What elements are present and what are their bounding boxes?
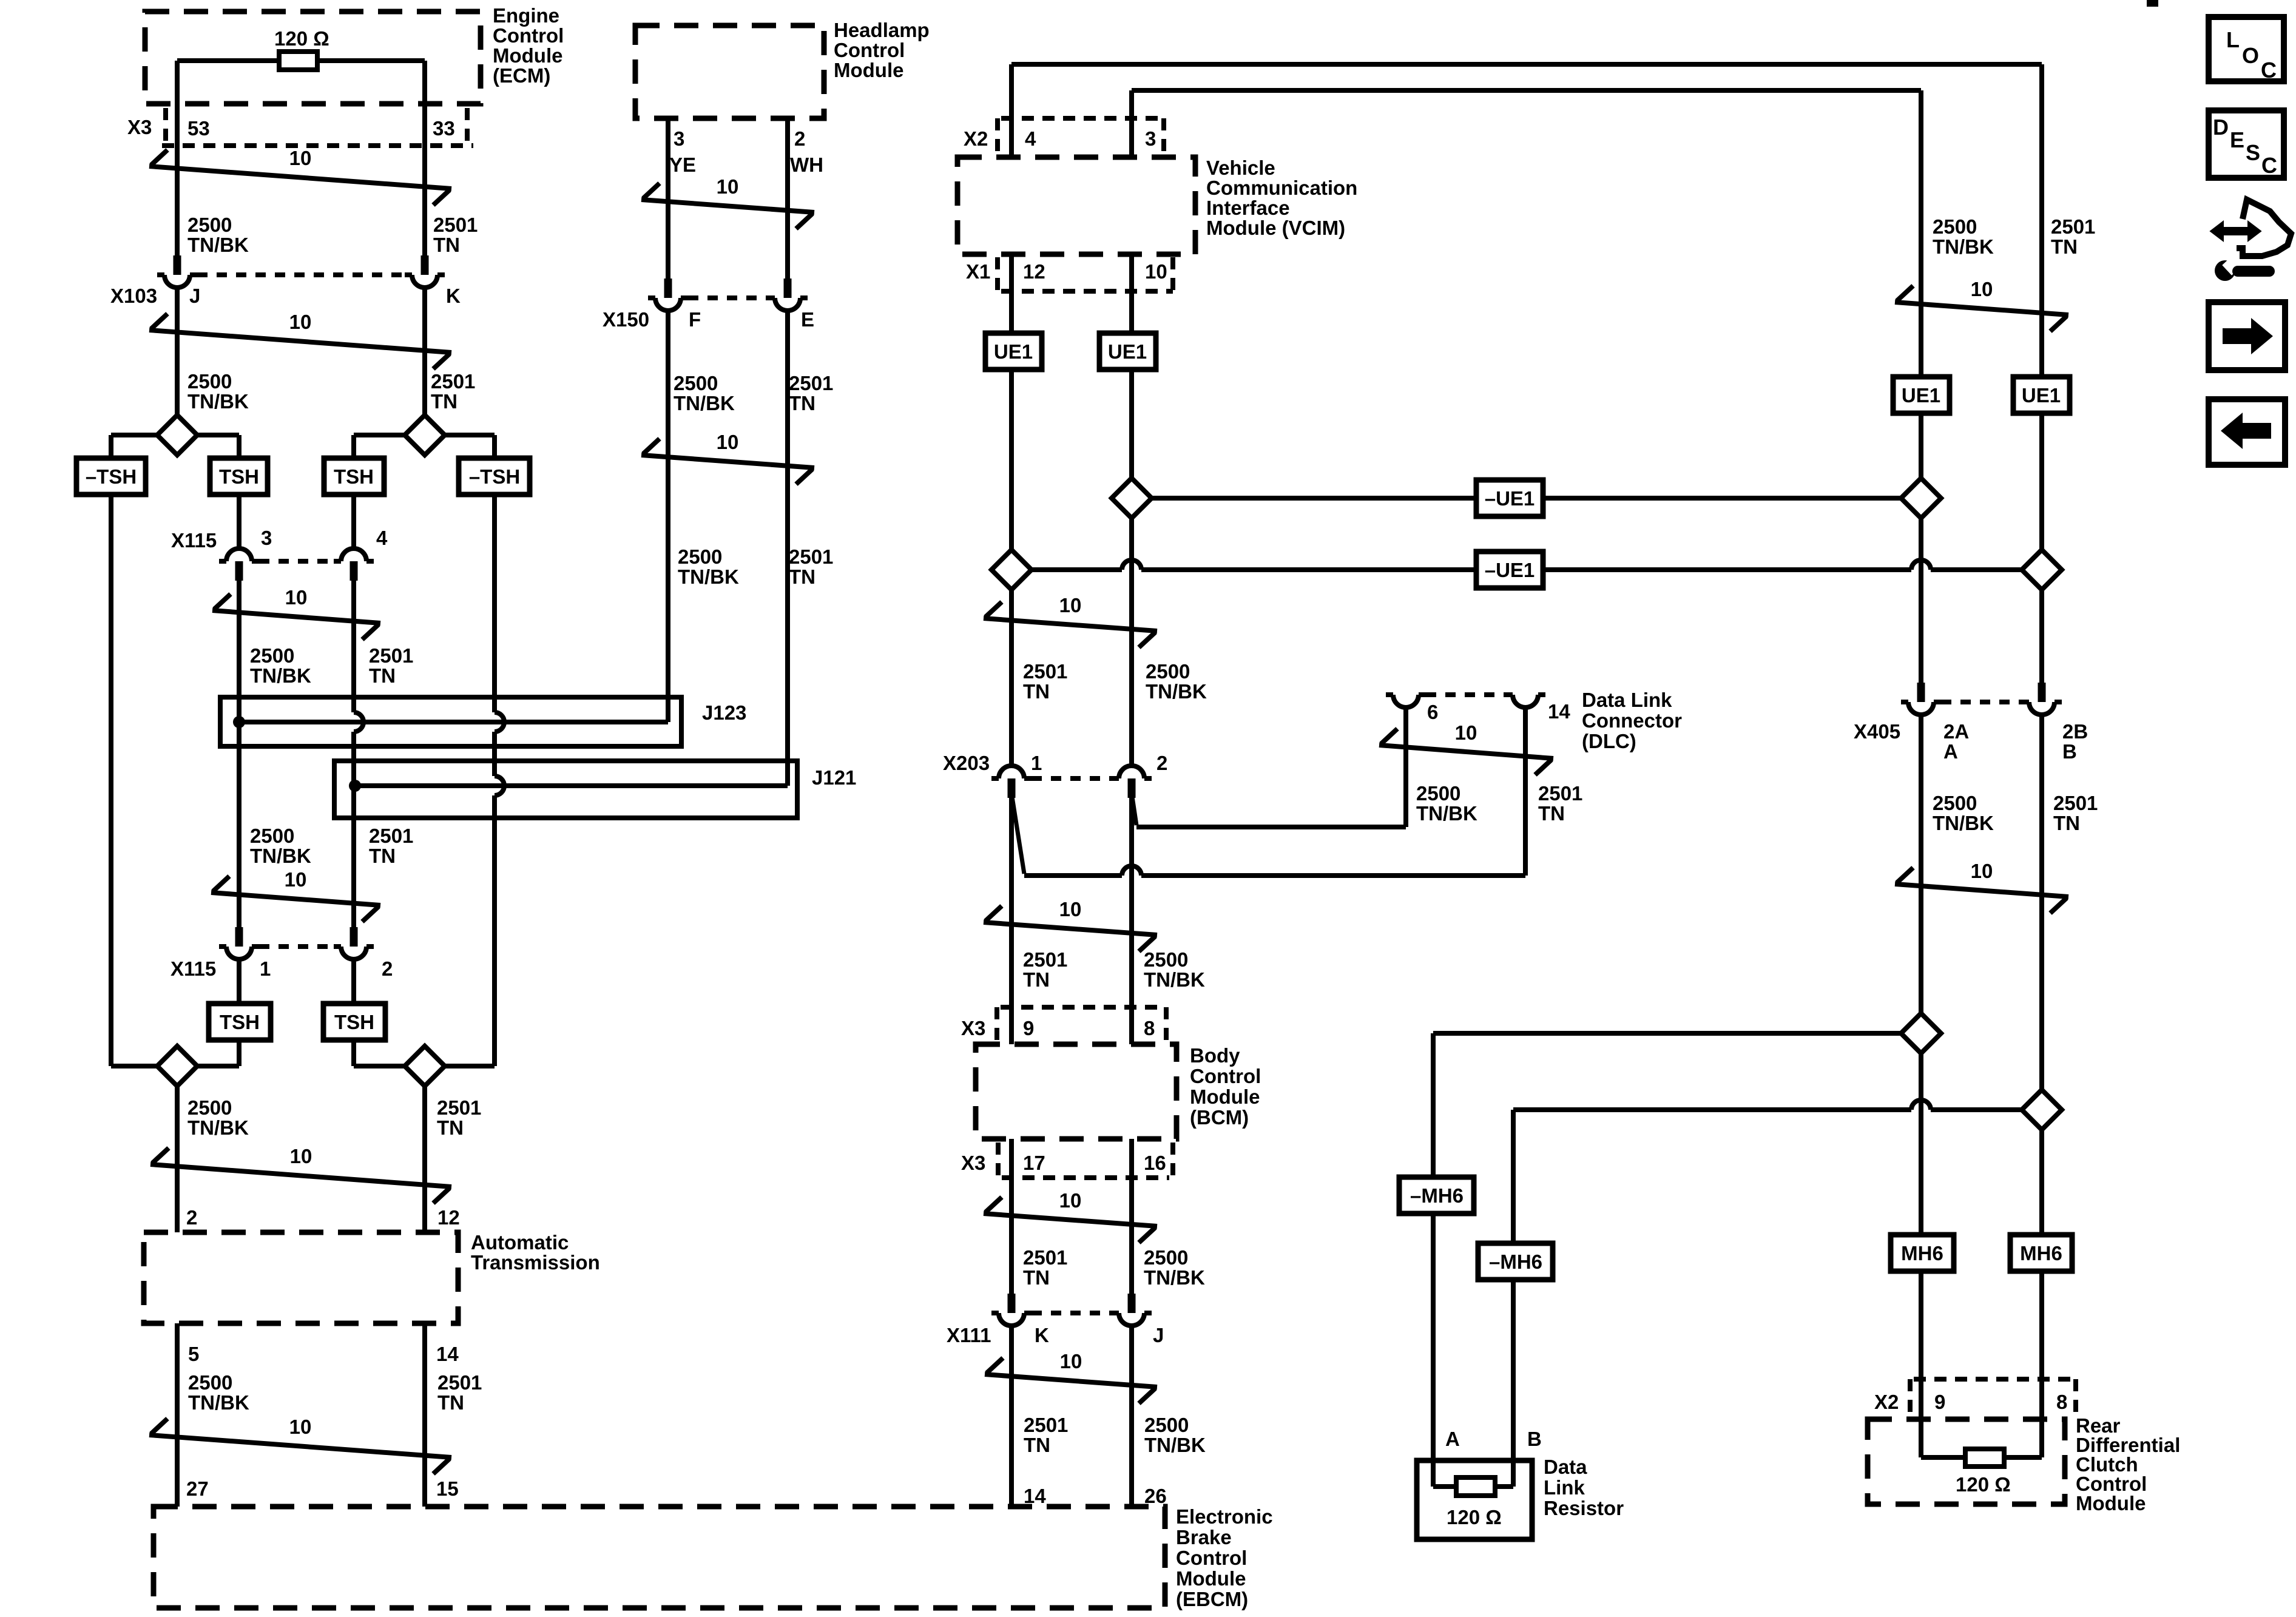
- svg-text:X405: X405: [1854, 720, 1900, 743]
- pin 12: [1023, 260, 1045, 283]
- svg-text:TSH: TSH: [219, 465, 259, 488]
- wire ECM internal left to resistor: [177, 58, 280, 63]
- label Vehicle Communication Interface Module (VCIM): [1206, 157, 1357, 239]
- svg-text:Communication: Communication: [1206, 177, 1357, 199]
- value label 120 ohm: [1956, 1473, 2011, 1496]
- svg-text:Vehicle: Vehicle: [1206, 157, 1275, 179]
- svg-text:6: 6: [1427, 701, 1438, 723]
- svg-text:10: 10: [1059, 898, 1082, 920]
- pin 9: [1023, 1017, 1034, 1039]
- svg-text:3: 3: [1145, 127, 1156, 150]
- svg-text:120 Ω: 120 Ω: [1956, 1473, 2011, 1496]
- svg-text:2500: 2500: [187, 370, 232, 393]
- svg-text:X203: X203: [943, 752, 990, 774]
- svg-text:Automatic: Automatic: [471, 1231, 569, 1254]
- pin 2: [1156, 752, 1167, 774]
- wire 2501 down to TSH: [351, 959, 356, 1004]
- net label UE1: [985, 333, 1042, 370]
- svg-text:2500: 2500: [1416, 782, 1460, 805]
- wire right 2500 MH6 to X2: [1919, 1271, 1923, 1457]
- svg-text:10: 10: [290, 1145, 312, 1167]
- pin 6: [1427, 701, 1438, 723]
- wire B branch to resistor box: [1511, 1280, 1516, 1487]
- svg-text:2500: 2500: [187, 1096, 232, 1119]
- svg-text:Headlamp: Headlamp: [834, 19, 930, 41]
- svg-text:TN/BK: TN/BK: [1933, 812, 1994, 834]
- wire label 2501 TN: [2051, 215, 2095, 258]
- splice diamond on right 2500 at -UE1 bus: [1901, 478, 1941, 518]
- svg-text:2500: 2500: [1144, 1414, 1189, 1436]
- connector label X115: [171, 529, 217, 552]
- connector X103 pin K: [405, 255, 445, 288]
- wire 2501 to transmission: [422, 1086, 427, 1232]
- svg-text:14: 14: [1024, 1485, 1046, 1507]
- wire ECM internal resistor to right: [318, 58, 425, 63]
- svg-text:X2: X2: [964, 127, 988, 150]
- wire label 2500 TN/BK: [250, 644, 311, 687]
- svg-text:1: 1: [1031, 752, 1042, 774]
- wire 2500 X203 to BCM: [1129, 798, 1134, 1044]
- label Rear Differential Clutch Control Module: [2076, 1414, 2180, 1514]
- twisted pair crossing 10 below headlamp: [641, 175, 814, 229]
- wire label 2501 TN: [437, 1096, 481, 1139]
- net label -MH6: [1478, 1243, 1553, 1280]
- connector DLC pin 14: [1505, 695, 1545, 707]
- svg-text:2501: 2501: [433, 214, 478, 236]
- svg-text:Resistor: Resistor: [1544, 1497, 1624, 1519]
- svg-text:–TSH: –TSH: [469, 465, 520, 488]
- svg-text:X3: X3: [127, 116, 152, 138]
- svg-text:Electronic: Electronic: [1176, 1505, 1273, 1528]
- wire label 2500 TN/BK: [1933, 215, 1994, 258]
- wire 2501 down crossing J123: [354, 581, 363, 927]
- svg-text:2500: 2500: [674, 372, 718, 394]
- wire TSH chain down: [237, 495, 241, 549]
- wire label WH: [790, 154, 823, 176]
- wire X1 pin 12 down: [1009, 254, 1014, 333]
- junction label J123: [702, 701, 746, 724]
- pin J: [189, 285, 200, 307]
- module box Body Control Module (BCM): [976, 1044, 1177, 1139]
- svg-text:TN: TN: [1023, 968, 1050, 991]
- wire 2500 from ECM pin 53: [175, 61, 180, 255]
- value label 120 ohm: [1447, 1506, 1502, 1528]
- svg-text:2501: 2501: [437, 1096, 481, 1119]
- splice diamond on 2501 at -UE1 bus: [991, 550, 1032, 590]
- icon box LOC: [2209, 17, 2284, 83]
- wire 2501 from ECM pin 33: [422, 61, 427, 255]
- connector label X115: [171, 957, 216, 980]
- svg-text:Module: Module: [2076, 1492, 2146, 1514]
- svg-text:10: 10: [289, 311, 312, 333]
- svg-text:TN: TN: [1023, 680, 1050, 703]
- connector X115 dashed pair line: [259, 559, 334, 564]
- module box Engine Control Module (ECM): [145, 12, 481, 104]
- svg-text:D: D: [2213, 115, 2229, 140]
- pin 12: [437, 1206, 460, 1229]
- icon box arrow left: [2209, 399, 2285, 465]
- wire label 2501 TN: [789, 545, 833, 588]
- wire 2501 below UE1: [1009, 370, 1014, 550]
- svg-text:K: K: [1035, 1324, 1049, 1346]
- connector X103 pin J: [157, 255, 197, 288]
- label Headlamp Control Module: [834, 19, 930, 81]
- wire -TSH chain down left: [109, 495, 113, 1066]
- svg-text:120 Ω: 120 Ω: [274, 27, 329, 50]
- svg-text:TN/BK: TN/BK: [187, 390, 249, 413]
- pin 2: [382, 957, 393, 980]
- svg-text:2500: 2500: [1933, 792, 1977, 814]
- twisted pair crossing 10 above EBCM: [149, 1416, 451, 1474]
- pin 3: [261, 527, 272, 549]
- svg-text:WH: WH: [790, 154, 823, 176]
- wire TSH chain down right: [351, 495, 356, 549]
- svg-text:Control: Control: [1176, 1547, 1247, 1569]
- pin 27: [186, 1477, 209, 1500]
- svg-text:UE1: UE1: [1902, 384, 1940, 407]
- bus wire -UE1 upper: [1152, 496, 1476, 501]
- wire inside J123 to headlamp: [239, 720, 668, 724]
- wire 2500 down through J123 junction: [237, 581, 241, 927]
- pin K: [1035, 1324, 1049, 1346]
- wire X203 pin2 to DLC pin6: [1136, 825, 1406, 829]
- svg-text:B: B: [1527, 1428, 1542, 1450]
- label Engine Control Module (ECM): [493, 4, 564, 87]
- twisted pair crossing 10 below X103: [149, 311, 451, 369]
- connector X115 pin 1: [219, 927, 259, 959]
- svg-text:J: J: [1153, 1324, 1164, 1346]
- pin F: [689, 308, 701, 331]
- svg-text:TN: TN: [431, 390, 458, 413]
- svg-text:10: 10: [285, 586, 308, 609]
- connector X103 dashed pair line: [197, 272, 405, 277]
- svg-text:12: 12: [1023, 260, 1045, 283]
- svg-text:TN: TN: [369, 845, 396, 867]
- svg-text:Body: Body: [1190, 1044, 1240, 1067]
- splice diamond right 2500 to resistor A: [1901, 1013, 1941, 1053]
- wire right 2500 X405 to diamond: [1919, 715, 1923, 1013]
- connector label X3: [961, 1152, 985, 1174]
- wire label 2500 TN/BK: [1933, 792, 1994, 834]
- svg-text:L: L: [2226, 27, 2240, 52]
- svg-text:8: 8: [1144, 1017, 1155, 1039]
- pin 15: [436, 1477, 459, 1500]
- svg-text:Module: Module: [1190, 1085, 1260, 1108]
- svg-text:TN: TN: [1023, 1266, 1050, 1289]
- svg-text:Control: Control: [834, 39, 905, 61]
- wire label 2501 TN: [1024, 1414, 1068, 1456]
- connector label X3: [961, 1017, 985, 1039]
- twisted pair crossing 10 below ECM: [149, 147, 451, 205]
- svg-text:2501: 2501: [1023, 660, 1067, 683]
- wire jog X203 pin2 to DLC bus: [1132, 797, 1136, 825]
- splice diamond merge 2500: [157, 1046, 197, 1086]
- icon box arrow right: [2209, 302, 2285, 370]
- svg-text:10: 10: [717, 431, 739, 453]
- svg-text:X150: X150: [603, 308, 649, 331]
- twisted pair crossing 10 right top: [1895, 278, 2068, 331]
- svg-text:TN: TN: [1024, 1434, 1050, 1456]
- svg-text:TN: TN: [789, 392, 815, 414]
- svg-text:3: 3: [674, 127, 684, 150]
- svg-text:TN/BK: TN/BK: [1146, 680, 1207, 703]
- wire 2500 between diamond and X203: [1129, 518, 1134, 766]
- svg-text:10: 10: [289, 147, 312, 169]
- svg-text:–UE1: –UE1: [1485, 559, 1535, 581]
- svg-text:Connector: Connector: [1582, 709, 1682, 732]
- svg-text:Module: Module: [493, 44, 562, 67]
- wire label 2501 TN: [1023, 948, 1067, 991]
- net label MH6: [1891, 1235, 1954, 1271]
- wire right 2500 diamond to MH6: [1919, 1053, 1923, 1235]
- pin 33: [433, 117, 455, 140]
- svg-text:2500: 2500: [1933, 215, 1977, 238]
- svg-text:27: 27: [186, 1477, 209, 1500]
- connector strip X3 of BCM top: [997, 1007, 1166, 1041]
- connector label X103: [110, 285, 157, 307]
- svg-text:O: O: [2242, 43, 2259, 68]
- svg-text:10: 10: [1971, 278, 1993, 300]
- bus wire pin4 to right column: [1011, 62, 2042, 67]
- svg-text:26: 26: [1144, 1485, 1167, 1507]
- svg-text:2500: 2500: [1146, 660, 1190, 683]
- svg-text:4: 4: [376, 527, 388, 549]
- svg-text:TSH: TSH: [334, 465, 374, 488]
- wire label 2500 TN/BK: [1416, 782, 1477, 825]
- svg-text:X115: X115: [171, 529, 217, 552]
- wire 2501 BCM to X111: [1009, 1139, 1014, 1294]
- svg-text:Brake: Brake: [1176, 1526, 1232, 1548]
- svg-text:UE1: UE1: [1108, 340, 1147, 363]
- wire B branch down: [1511, 1110, 1516, 1243]
- connector X111 dashed pair line: [1032, 1311, 1112, 1315]
- svg-text:TN: TN: [433, 234, 460, 256]
- svg-text:MH6: MH6: [2020, 1242, 2062, 1264]
- svg-text:X3: X3: [961, 1152, 985, 1174]
- svg-text:–MH6: –MH6: [1410, 1184, 1464, 1207]
- twisted pair crossing 10 below BCM: [984, 1189, 1157, 1243]
- svg-text:Data: Data: [1544, 1456, 1587, 1478]
- net label TSH: [324, 458, 384, 495]
- module box Electronic Brake Control Module (EBCM): [154, 1507, 1165, 1608]
- icon box DESC: [2209, 110, 2284, 178]
- wire right 2501 X405 to diamond: [2039, 715, 2044, 1090]
- svg-text:Interface: Interface: [1206, 197, 1290, 219]
- pin 3: [674, 127, 684, 150]
- wire right 2500 diamond to X405: [1919, 518, 1923, 683]
- wire label 2500 TN/BK: [187, 1096, 249, 1139]
- connector label X2: [964, 127, 988, 150]
- svg-text:TN/BK: TN/BK: [250, 845, 311, 867]
- wire 2501 X103-K down: [422, 288, 427, 415]
- svg-text:2500: 2500: [187, 214, 232, 236]
- net label -TSH: [459, 458, 530, 495]
- svg-text:Module: Module: [834, 59, 903, 81]
- svg-text:Module: Module: [1176, 1567, 1246, 1590]
- svg-text:B: B: [2062, 740, 2077, 763]
- svg-text:2500: 2500: [1144, 948, 1188, 971]
- svg-text:E: E: [801, 308, 814, 331]
- wire DLC pin14 down: [1523, 707, 1528, 876]
- pin 9: [1934, 1391, 1945, 1413]
- svg-text:J123: J123: [702, 701, 746, 724]
- pin 4: [376, 527, 388, 549]
- svg-text:120 Ω: 120 Ω: [1447, 1506, 1502, 1528]
- connector label X405: [1854, 720, 1900, 743]
- svg-text:2500: 2500: [678, 545, 722, 568]
- wire label 2500 TN/BK: [1144, 1246, 1205, 1289]
- wire split bus right: [354, 433, 495, 437]
- module box Rear Differential Clutch Control Module: [1868, 1419, 2065, 1504]
- svg-text:TN: TN: [437, 1391, 464, 1414]
- svg-text:TN/BK: TN/BK: [187, 234, 249, 256]
- svg-text:(ECM): (ECM): [493, 64, 550, 87]
- svg-text:2500: 2500: [1144, 1246, 1188, 1269]
- svg-text:TN/BK: TN/BK: [1933, 235, 1994, 258]
- svg-text:TN/BK: TN/BK: [678, 565, 739, 588]
- wire 2501 below transmission: [422, 1323, 427, 1507]
- splice diamond on 2501: [405, 415, 445, 455]
- junction dot on 2500 in J123: [233, 716, 245, 728]
- connector X115 pin 4: [334, 549, 374, 581]
- connector label X3: [127, 116, 152, 138]
- connector label X111: [947, 1324, 991, 1346]
- connector label X1: [966, 260, 990, 283]
- resistor 120 ohm data link: [1456, 1477, 1495, 1496]
- wire headlamp pin 3 down: [666, 118, 670, 279]
- connector strip X1 of VCIM: [998, 257, 1173, 291]
- svg-text:2501: 2501: [1538, 782, 1582, 805]
- wire right branch down to TSH: [237, 435, 241, 459]
- wire 2500 X111 to EBCM: [1129, 1326, 1134, 1507]
- svg-text:S: S: [2246, 140, 2260, 165]
- wire 2500 headlamp down to J123: [666, 311, 670, 722]
- wire label 2500 TN/BK: [1144, 1414, 1206, 1456]
- svg-text:TN: TN: [437, 1116, 464, 1139]
- net label TSH: [209, 1004, 271, 1040]
- twisted pair crossing 10 above X203: [984, 594, 1157, 647]
- svg-text:X1: X1: [966, 260, 990, 283]
- wire label 2500 TN/BK: [678, 545, 739, 588]
- pin 10: [1145, 260, 1167, 283]
- svg-text:Control: Control: [493, 24, 564, 47]
- wire branch A to -MH6: [1433, 1031, 1901, 1036]
- wire label 2500 TN/BK: [188, 1371, 249, 1414]
- pin 1: [1031, 752, 1042, 774]
- wire internal data link resistor right: [1495, 1484, 1513, 1489]
- connector X150 pin E: [768, 279, 808, 311]
- svg-text:TN/BK: TN/BK: [188, 1391, 249, 1414]
- wire internal rear diff resistor right: [2004, 1455, 2042, 1460]
- svg-text:–UE1: –UE1: [1485, 487, 1535, 510]
- wire merge bus left: [111, 1064, 239, 1068]
- wire DLC pin6 down: [1403, 707, 1408, 827]
- bus wire -UE1 upper right: [1543, 496, 1901, 501]
- svg-text:2501: 2501: [437, 1371, 482, 1394]
- svg-text:2A: 2A: [1943, 720, 1969, 743]
- pin 17: [1023, 1152, 1045, 1174]
- svg-text:A: A: [1943, 740, 1958, 763]
- wire label 2500 TN/BK: [1146, 660, 1207, 703]
- svg-text:TSH: TSH: [220, 1011, 260, 1033]
- wire inside J121 to headlamp: [355, 783, 788, 788]
- label Data Link Connector (DLC): [1582, 689, 1682, 752]
- svg-text:2: 2: [794, 127, 805, 150]
- svg-text:YE: YE: [669, 154, 696, 176]
- svg-text:12: 12: [437, 1206, 460, 1229]
- net label -MH6: [1399, 1177, 1474, 1214]
- svg-text:–TSH: –TSH: [86, 465, 137, 488]
- svg-text:17: 17: [1023, 1152, 1045, 1174]
- svg-text:TN: TN: [1538, 802, 1565, 825]
- wire label 2500 TN/BK: [1144, 948, 1205, 991]
- net label TSH: [210, 458, 268, 495]
- pin 4: [1025, 127, 1036, 150]
- svg-text:(EBCM): (EBCM): [1176, 1588, 1248, 1610]
- connector X405 pin 2A: [1901, 683, 1941, 715]
- svg-text:10: 10: [717, 175, 739, 198]
- wire 2500 to transmission: [175, 1086, 180, 1232]
- svg-text:TN/BK: TN/BK: [1144, 968, 1205, 991]
- svg-text:2501: 2501: [1023, 1246, 1067, 1269]
- junction label J121: [812, 766, 856, 789]
- twisted pair crossing 10 below DLC: [1379, 721, 1553, 775]
- connector X115 dashed pair line: [259, 944, 334, 949]
- wire internal rear diff resistor left: [1921, 1455, 1965, 1460]
- connector X203 dashed pair line: [1032, 776, 1112, 781]
- pin 8: [2056, 1391, 2067, 1413]
- wire label YE: [669, 154, 696, 176]
- pin 53: [187, 117, 210, 140]
- svg-text:TN: TN: [789, 565, 815, 588]
- connector X203 pin 1: [991, 766, 1032, 798]
- svg-text:4: 4: [1025, 127, 1036, 150]
- wire label 2501 TN: [2053, 792, 2098, 834]
- wire 2501 between diamond and X203: [1009, 590, 1014, 766]
- svg-text:10: 10: [289, 1416, 312, 1438]
- svg-text:2: 2: [186, 1206, 197, 1229]
- svg-text:2B: 2B: [2062, 720, 2088, 743]
- junction box J121: [334, 761, 797, 818]
- svg-text:2500: 2500: [250, 644, 294, 667]
- wire A branch down: [1431, 1033, 1436, 1177]
- connector X115 pin 3: [219, 549, 259, 581]
- pin A: [1445, 1428, 1460, 1450]
- svg-text:(DLC): (DLC): [1582, 730, 1636, 752]
- wire 2501 headlamp down to J121: [785, 311, 790, 786]
- wire X203 pin1 to DLC pin14: [1024, 866, 1525, 876]
- pin 14: [436, 1343, 459, 1365]
- net label UE1: [2013, 377, 2070, 413]
- svg-text:10: 10: [1059, 1189, 1082, 1212]
- svg-text:3: 3: [261, 527, 272, 549]
- svg-text:2501: 2501: [369, 644, 413, 667]
- svg-text:9: 9: [1023, 1017, 1034, 1039]
- svg-text:Link: Link: [1544, 1476, 1585, 1499]
- resistor 120 ohm inside ECM: [279, 52, 317, 70]
- wire label 2501 TN: [789, 372, 833, 414]
- wire 2500 X103-J down: [175, 288, 180, 415]
- pin 2B B: [2062, 720, 2088, 763]
- connector X150 pin F: [648, 279, 688, 311]
- svg-text:A: A: [1445, 1428, 1460, 1450]
- svg-text:2: 2: [1156, 752, 1167, 774]
- label Automatic Transmission: [471, 1231, 600, 1274]
- net label TSH: [323, 1004, 385, 1040]
- connector X150 dashed pair line: [688, 295, 768, 300]
- bus wire -UE1 lower right: [1543, 560, 2022, 570]
- bus wire pin3 to right column: [1132, 88, 1921, 93]
